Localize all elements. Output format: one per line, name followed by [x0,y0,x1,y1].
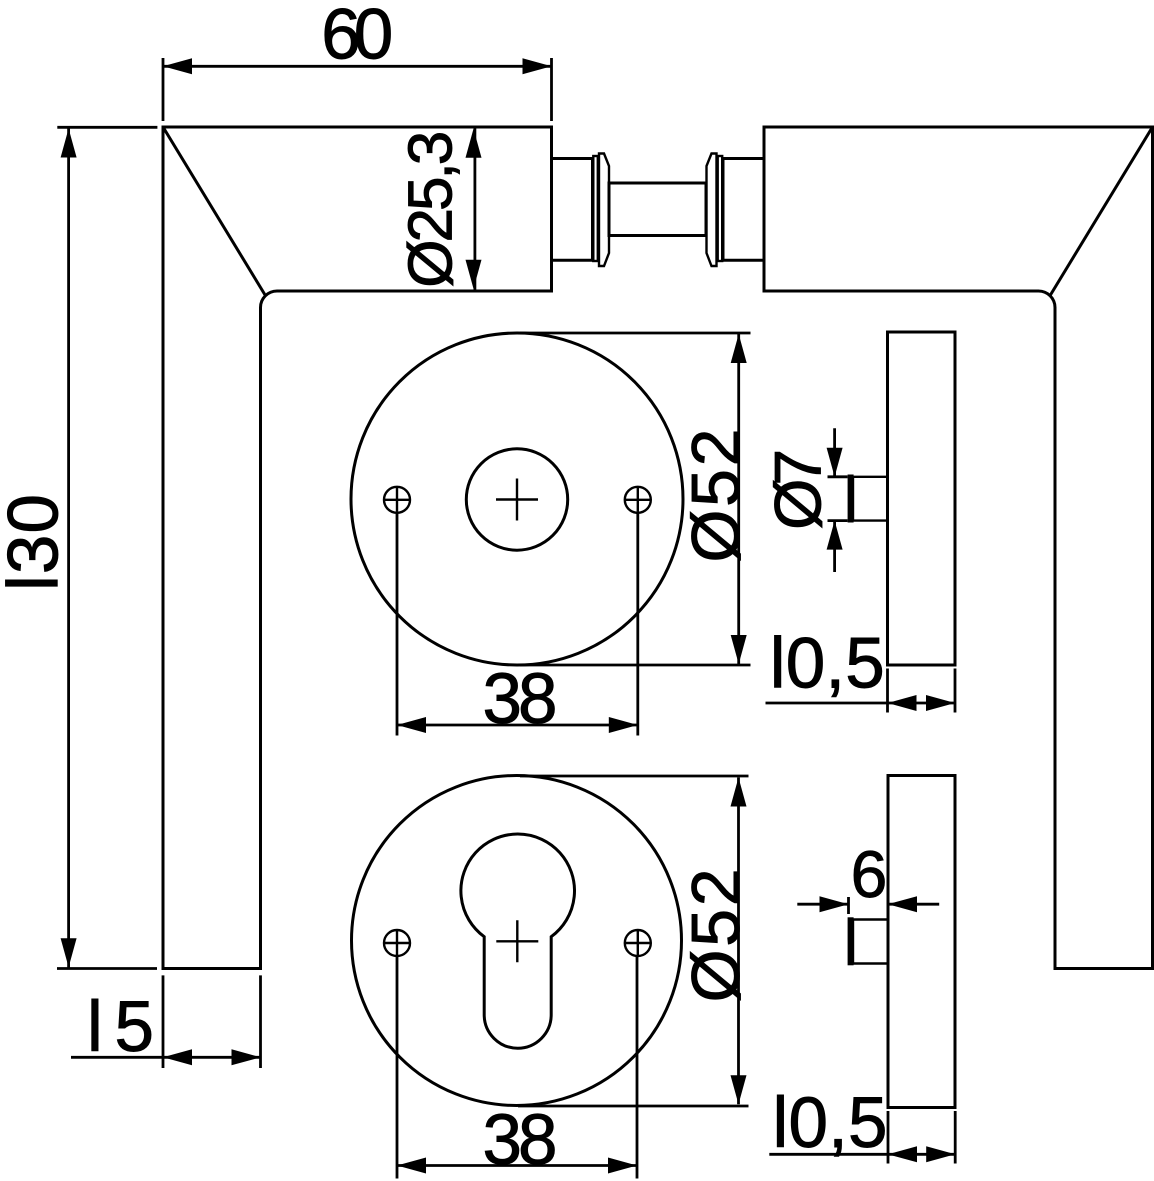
lower left screw [384,930,410,956]
spindle [609,183,706,236]
upper rosette side view plate [888,332,956,665]
left chamfered ring [599,154,609,267]
svg-text:60: 60 [321,0,393,75]
svg-text:Ø52: Ø52 [678,429,754,563]
arrowhead 38u left [397,717,426,733]
right neck [723,159,764,261]
arrowhead 105u right [926,695,955,711]
svg-text:l5: l5 [87,988,154,1067]
dim 6 lines [797,897,939,914]
dim 10,5 lower lines [769,1111,955,1164]
right chamfered ring [707,154,717,267]
right thin washer [718,156,723,261]
svg-text:Ø52: Ø52 [678,868,754,1002]
arrowhead 38l left [397,1158,426,1174]
arrowhead 105l left [888,1146,917,1162]
arrowhead O52l top [731,778,747,807]
arrowhead 60 right [523,58,552,74]
arrowhead 6 left [820,896,849,912]
lower right screw [625,930,651,956]
arrowhead O52u top [731,334,747,363]
svg-text:l0,5: l0,5 [773,1084,888,1163]
upper rosette center cross [496,479,538,521]
euro profile keyhole [461,834,575,1048]
dim Ø7 lines [828,428,848,572]
arrowhead O253 top [466,129,482,158]
svg-text:38: 38 [483,1101,558,1180]
lower side view boss washer [848,917,854,965]
dim Ø25,3 line [473,129,476,290]
upper side view screw boss [853,477,888,521]
svg-text:6: 6 [851,837,888,911]
upper side view boss washer [848,475,854,523]
lower rosette circle [352,776,682,1106]
arrowhead 38l right [608,1158,637,1174]
upper right screw [625,487,651,513]
arrowhead 130 top [61,129,77,158]
svg-text:Ø25,3: Ø25,3 [397,131,466,288]
arrowhead 6 right [888,896,917,912]
arrowhead 105u left [888,695,917,711]
arrowhead O253 bottom [466,260,482,289]
svg-text:l0,5: l0,5 [770,625,885,704]
arrowhead 38u right [609,717,638,733]
lower side view screw boss [853,920,888,964]
left lever handle outline (front view) [163,127,552,969]
dim 60 lines [163,58,552,121]
arrowhead 15 right [232,1049,261,1065]
upper left screw [384,487,410,513]
dim 130 lines [57,127,157,968]
dim 38 lower lines [397,956,637,1179]
lower rosette side view plate [888,776,955,1108]
dim Ø52 upper lines [520,333,751,665]
dim 15 lines [71,975,261,1068]
arrowhead O7 bottom [827,521,843,550]
left lever taper diagonal [163,127,266,297]
arrowhead 60 left [163,58,192,74]
upper rosette inner circle [466,449,567,550]
dim 10,5 upper lines [766,669,956,713]
svg-text:38: 38 [483,660,558,739]
right lever handle outline (front view) [764,127,1153,969]
svg-text:Ø7: Ø7 [761,449,835,530]
svg-text:l30: l30 [0,494,74,591]
left thin washer [593,156,598,261]
arrowhead 105l right [926,1146,955,1162]
arrowhead 15 left [163,1049,192,1065]
lower rosette center cross [496,920,538,962]
dim 38 upper lines [397,513,638,736]
arrowhead O52l bottom [731,1075,747,1104]
left neck [552,159,593,261]
arrowhead 130 bottom [61,938,77,967]
right lever taper diagonal [1050,127,1153,297]
upper rosette circle [351,333,683,665]
arrowhead O7 top [827,448,843,477]
dim Ø52 lower lines [518,776,749,1106]
arrowhead O52u bottom [731,635,747,664]
